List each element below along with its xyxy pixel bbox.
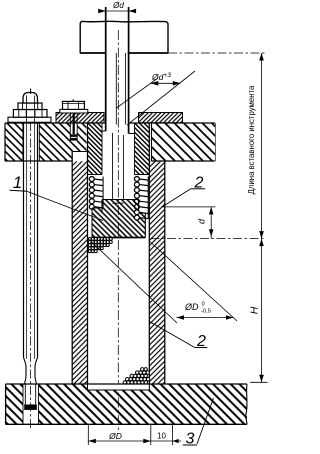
svg-text:Длина вставного инструмента: Длина вставного инструмента xyxy=(247,85,256,194)
svg-text:10: 10 xyxy=(157,432,166,441)
svg-text:ØD: ØD xyxy=(184,302,199,312)
svg-text:-0,5: -0,5 xyxy=(201,309,211,315)
svg-text:Ød: Ød xyxy=(112,1,124,10)
svg-text:H: H xyxy=(249,306,261,314)
svg-text:ØD: ØD xyxy=(108,431,122,441)
svg-text:1: 1 xyxy=(13,173,22,192)
svg-text:0: 0 xyxy=(202,302,205,308)
